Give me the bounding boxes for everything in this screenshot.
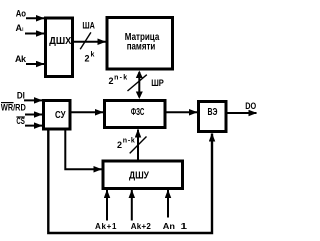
- svg-text:памяти: памяти: [127, 40, 156, 52]
- svg-text:ФЗС: ФЗС: [131, 107, 145, 118]
- wire input CS: [25, 125, 42, 127]
- svg-text:ВЭ: ВЭ: [208, 107, 218, 118]
- label 2^k: [85, 52, 95, 64]
- block Матрица памяти (memory matrix): [107, 18, 173, 70]
- svg-text:ДШУ: ДШУ: [129, 171, 150, 182]
- slash on bus ШР: [128, 75, 147, 91]
- block ДШХ (row address decoder): [46, 18, 73, 77]
- label Ak+2: [131, 222, 152, 231]
- block ВЭ (output element): [199, 102, 227, 132]
- svg-text:Ak: Ak: [15, 54, 27, 64]
- svg-text:n-k: n-k: [114, 74, 127, 81]
- wire ФЗС to ВЭ: [167, 111, 198, 113]
- svg-text:WR/RD: WR/RD: [1, 102, 26, 112]
- svg-text:2: 2: [109, 76, 114, 86]
- wire input Ak+2: [131, 190, 133, 221]
- wire input A1: [25, 33, 44, 35]
- block СУ (control unit): [44, 101, 71, 130]
- bus ША (address bus ДШХ to matrix): [74, 41, 106, 43]
- label 2^n-k (lower): [117, 137, 135, 150]
- label WR/RD with overline on WR: [1, 102, 26, 112]
- svg-text:1: 1: [181, 221, 188, 231]
- svg-text:k: k: [91, 52, 95, 59]
- svg-text:Ao: Ao: [16, 8, 27, 18]
- svg-text:CS: CS: [16, 116, 25, 126]
- svg-text:DI: DI: [17, 90, 25, 100]
- svg-text:ШР: ШР: [151, 78, 164, 89]
- svg-text:СУ: СУ: [55, 110, 66, 121]
- wire input Ao: [26, 17, 44, 19]
- wire input WR/RD: [25, 114, 42, 116]
- slash on bus ДШУ-ФЗС: [130, 137, 147, 154]
- svg-text:ША: ША: [82, 20, 95, 30]
- wire input Ak+1: [106, 190, 108, 221]
- label An 1: [163, 221, 188, 231]
- wire input Ak: [26, 63, 44, 65]
- wire input DI: [24, 99, 42, 101]
- svg-text:2: 2: [85, 54, 90, 64]
- wire input An-1: [167, 190, 169, 218]
- label CS with overline: [16, 116, 25, 126]
- svg-text:n-k: n-k: [123, 137, 135, 144]
- svg-text:DO: DO: [245, 101, 256, 111]
- block ФЗС (sense amplifiers): [105, 101, 166, 128]
- wire СУ down-right rail to ВЭ: [48, 130, 212, 234]
- label 2^n-k (upper): [109, 74, 128, 86]
- label A1: [16, 23, 25, 33]
- label Ak+1: [95, 222, 117, 231]
- wire СУ down to ДШУ: [65, 130, 101, 170]
- svg-text:An: An: [163, 222, 175, 231]
- block ДШУ (column address decoder): [103, 161, 183, 189]
- svg-text:ДШХ: ДШХ: [49, 35, 71, 47]
- bus ШР (bidirectional, matrix to ФЗС): [136, 71, 143, 100]
- slash on bus ША: [80, 32, 91, 49]
- wire СУ to ФЗС: [72, 111, 104, 113]
- bus ДШУ to ФЗС: [137, 130, 139, 160]
- svg-text:Ak+1: Ak+1: [95, 222, 117, 231]
- svg-text:2: 2: [117, 140, 122, 150]
- wire ВЭ to DO output: [228, 112, 257, 114]
- svg-text:Ak+2: Ak+2: [131, 222, 152, 231]
